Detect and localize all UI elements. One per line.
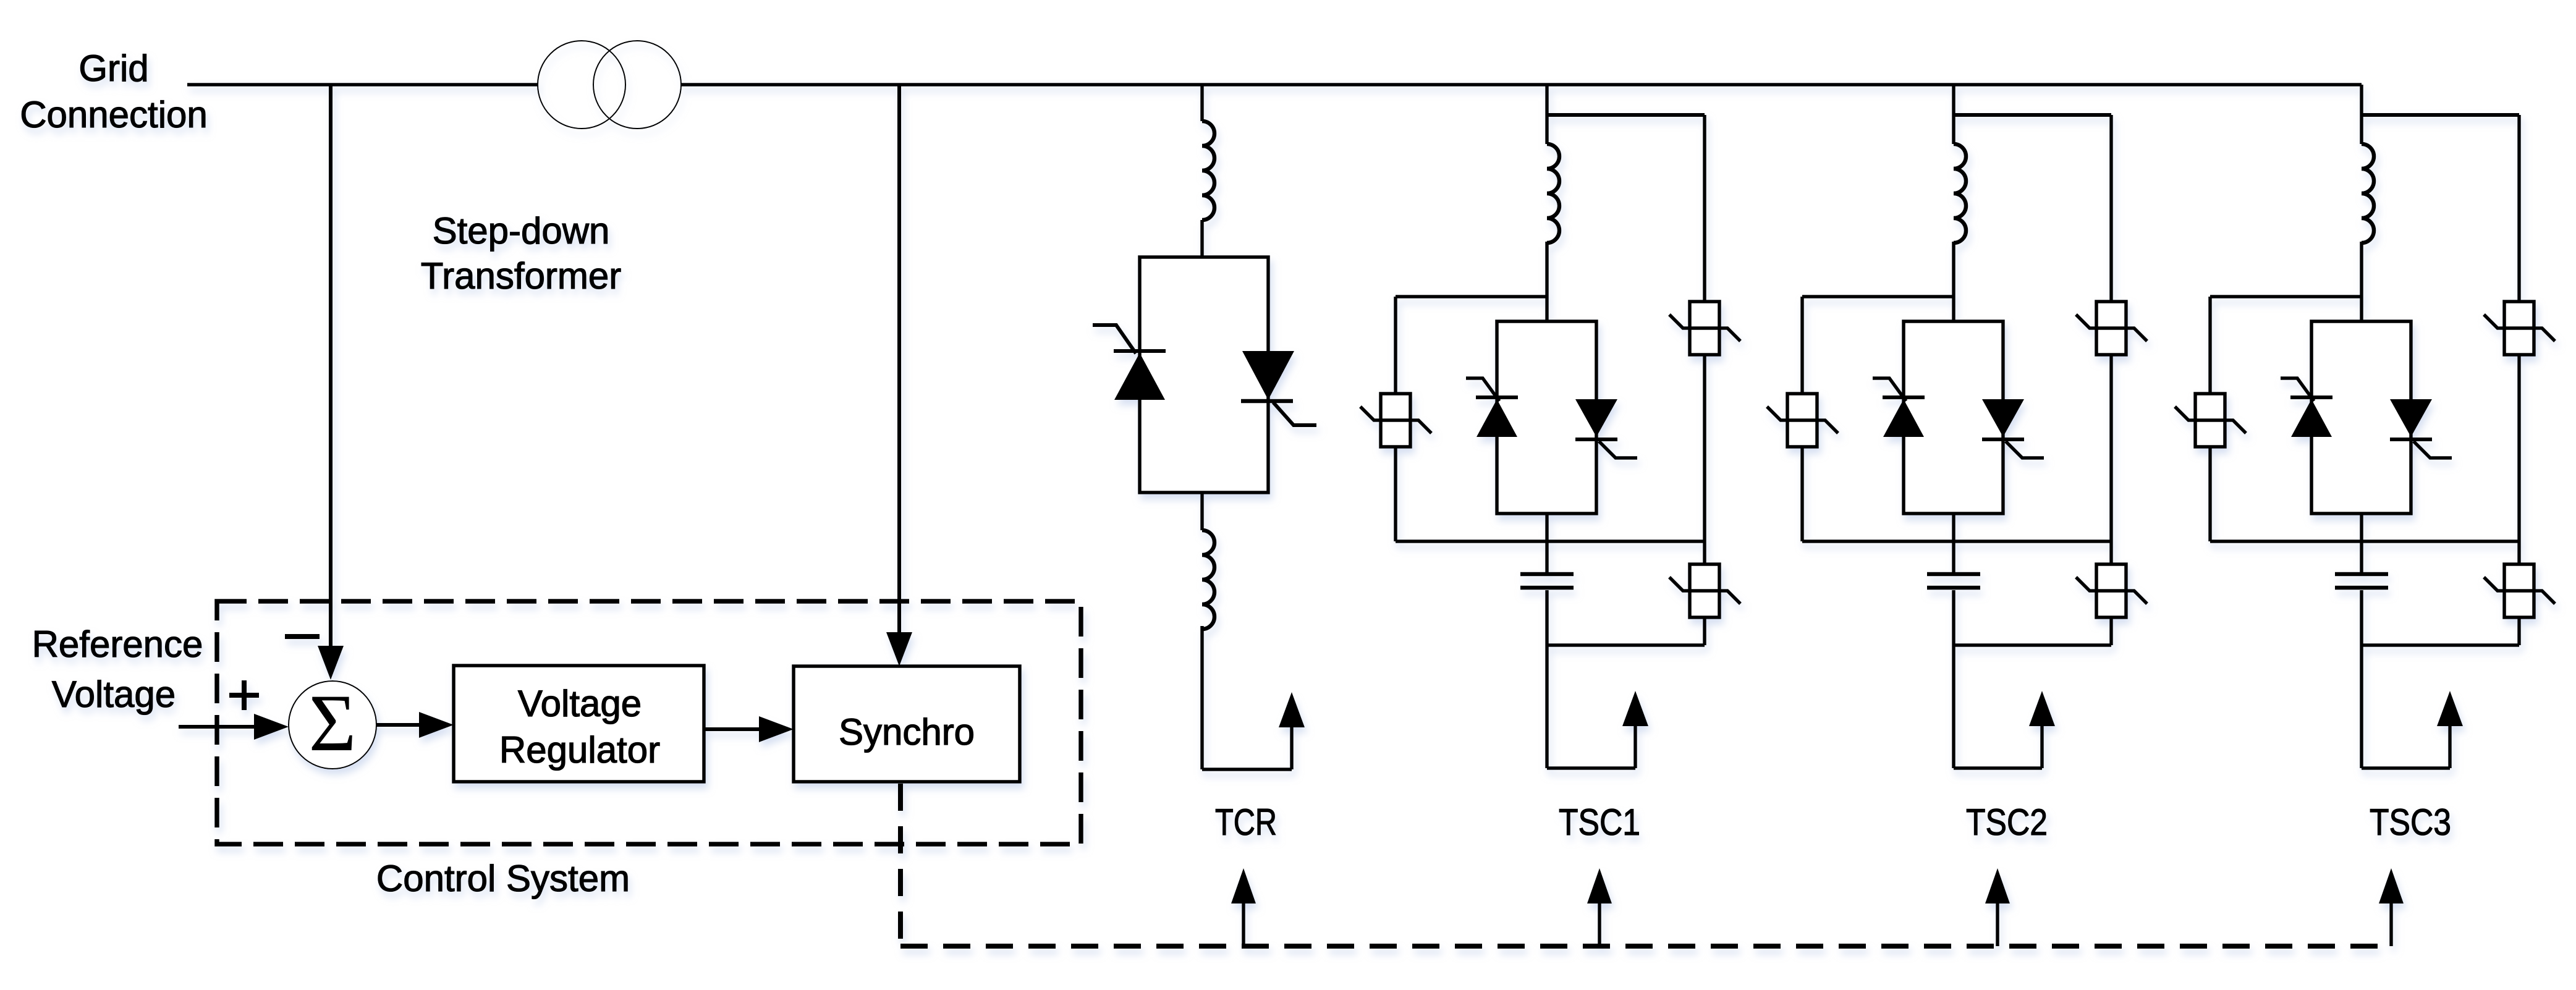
svg-text:Connection: Connection xyxy=(20,94,208,135)
svg-text:Voltage: Voltage xyxy=(52,674,176,715)
svg-text:Synchro: Synchro xyxy=(839,711,975,753)
svg-text:TSC2: TSC2 xyxy=(1966,802,2048,843)
svg-text:Regulator: Regulator xyxy=(499,729,660,771)
svg-text:Control System: Control System xyxy=(376,858,630,899)
svg-text:Reference: Reference xyxy=(32,624,203,665)
svg-text:Step-down: Step-down xyxy=(433,210,610,252)
svg-text:TSC1: TSC1 xyxy=(1559,802,1640,843)
svg-text:Transformer: Transformer xyxy=(421,255,622,297)
svg-text:TSC3: TSC3 xyxy=(2370,802,2451,843)
svg-text:Σ: Σ xyxy=(309,677,357,768)
svg-text:Grid: Grid xyxy=(78,48,148,89)
svg-text:Voltage: Voltage xyxy=(518,683,642,724)
svg-text:TCR: TCR xyxy=(1215,802,1277,843)
